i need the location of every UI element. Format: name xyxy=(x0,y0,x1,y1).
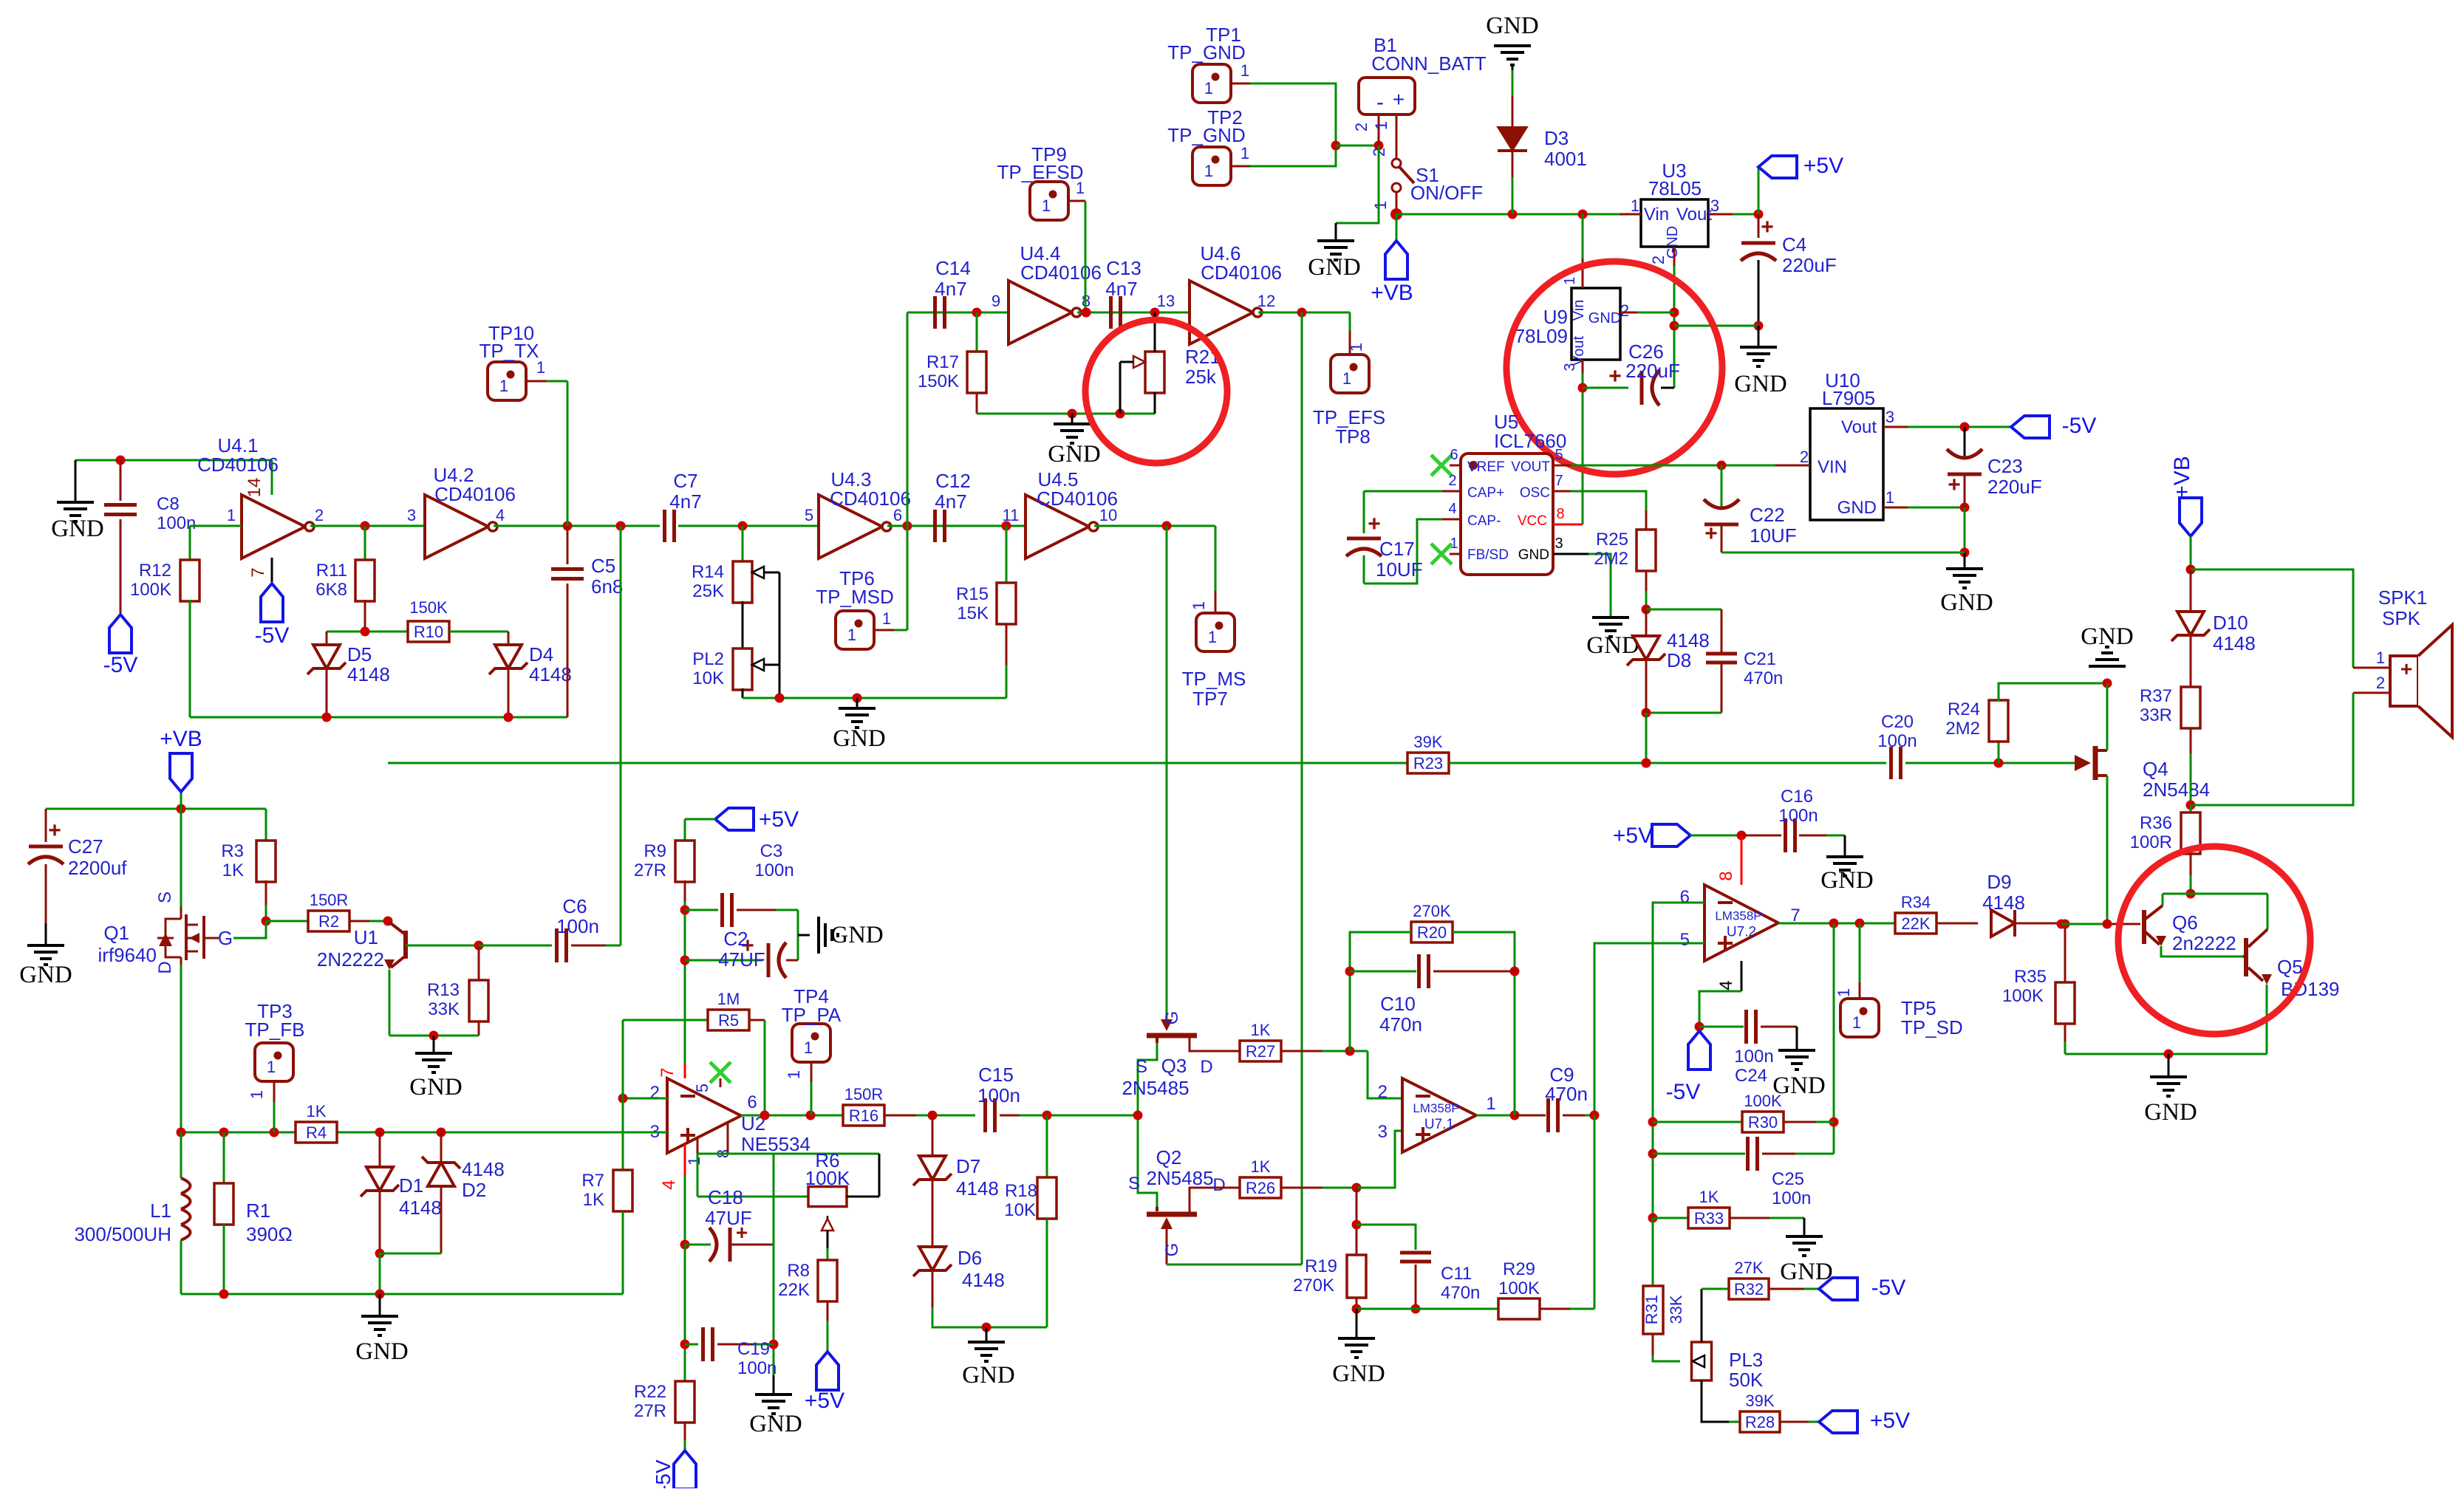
svg-text:2: 2 xyxy=(1800,448,1809,466)
svg-text:22K: 22K xyxy=(778,1280,810,1300)
svg-text:TP_MSD: TP_MSD xyxy=(816,586,893,608)
svg-text:D4: D4 xyxy=(529,643,553,665)
svg-text:SPK: SPK xyxy=(2382,607,2421,629)
svg-text:1: 1 xyxy=(1631,196,1639,215)
svg-text:100n: 100n xyxy=(754,860,794,880)
svg-text:470n: 470n xyxy=(1441,1283,1480,1303)
svg-text:G: G xyxy=(218,927,233,949)
svg-text:R1: R1 xyxy=(246,1200,270,1222)
svg-text:27R: 27R xyxy=(634,860,666,880)
svg-text:4: 4 xyxy=(1716,980,1736,990)
svg-text:GND: GND xyxy=(1665,226,1681,259)
svg-text:220uF: 220uF xyxy=(1625,360,1680,382)
svg-text:TP_GND: TP_GND xyxy=(1167,41,1245,64)
svg-text:1: 1 xyxy=(1208,628,1217,646)
svg-text:TP_PA: TP_PA xyxy=(782,1004,842,1026)
svg-text:100n: 100n xyxy=(737,1358,777,1378)
svg-text:R15: R15 xyxy=(956,584,989,604)
svg-text:GND: GND xyxy=(1486,13,1539,39)
svg-text:SPK1: SPK1 xyxy=(2378,586,2428,609)
svg-text:U7.2: U7.2 xyxy=(1727,925,1756,940)
svg-text:1K: 1K xyxy=(222,860,244,880)
svg-text:CAP-: CAP- xyxy=(1467,513,1501,529)
svg-text:10: 10 xyxy=(1099,506,1117,524)
svg-text:2: 2 xyxy=(2376,674,2385,692)
svg-text:4n7: 4n7 xyxy=(669,490,701,513)
svg-text:1: 1 xyxy=(2376,649,2385,667)
svg-text:150K: 150K xyxy=(918,372,959,391)
svg-text:GND: GND xyxy=(1308,254,1361,281)
svg-text:2: 2 xyxy=(650,1083,660,1103)
svg-text:1: 1 xyxy=(847,626,856,644)
svg-text:+5V: +5V xyxy=(805,1389,844,1413)
svg-text:10UF: 10UF xyxy=(1750,524,1797,547)
svg-text:1: 1 xyxy=(785,1070,803,1079)
svg-text:100R: 100R xyxy=(2130,832,2172,852)
svg-text:1: 1 xyxy=(1835,988,1853,997)
svg-text:1: 1 xyxy=(1885,488,1894,507)
svg-text:+: + xyxy=(1393,88,1405,111)
svg-text:C15: C15 xyxy=(978,1064,1014,1086)
svg-text:2N5485: 2N5485 xyxy=(1146,1167,1213,1189)
svg-text:1: 1 xyxy=(1450,535,1458,552)
svg-text:R20: R20 xyxy=(1417,923,1447,942)
svg-text:D: D xyxy=(1212,1175,1225,1195)
svg-text:R7: R7 xyxy=(581,1171,604,1191)
svg-text:GND: GND xyxy=(1332,1361,1385,1387)
svg-text:1: 1 xyxy=(1371,201,1390,210)
svg-text:GND: GND xyxy=(19,962,72,988)
svg-text:8: 8 xyxy=(1556,506,1564,522)
svg-text:G: G xyxy=(1162,1243,1182,1257)
svg-text:10K: 10K xyxy=(1004,1200,1036,1220)
svg-text:7: 7 xyxy=(658,1067,678,1077)
svg-text:GND: GND xyxy=(830,922,884,948)
svg-text:GND: GND xyxy=(409,1074,463,1101)
svg-text:1K: 1K xyxy=(1251,1021,1271,1039)
svg-text:R32: R32 xyxy=(1734,1280,1764,1298)
svg-text:1: 1 xyxy=(1042,196,1051,215)
svg-text:+: + xyxy=(1704,521,1718,546)
svg-text:1K: 1K xyxy=(1699,1188,1719,1206)
svg-text:LM358P: LM358P xyxy=(1715,909,1761,923)
svg-text:R29: R29 xyxy=(1503,1259,1535,1279)
svg-text:GND: GND xyxy=(1780,1259,1833,1285)
svg-text:CAP+: CAP+ xyxy=(1467,485,1504,501)
svg-text:4148: 4148 xyxy=(1667,629,1710,651)
svg-text:15K: 15K xyxy=(957,603,989,623)
svg-text:R4: R4 xyxy=(306,1123,327,1142)
svg-text:100n: 100n xyxy=(1772,1188,1811,1208)
svg-text:2M2: 2M2 xyxy=(1945,719,1980,739)
svg-text:+: + xyxy=(2400,657,2412,680)
svg-text:C7: C7 xyxy=(673,470,697,492)
svg-text:4148: 4148 xyxy=(1982,892,2025,914)
svg-text:27R: 27R xyxy=(634,1401,666,1421)
svg-text:1: 1 xyxy=(1240,61,1249,80)
svg-text:+: + xyxy=(1761,215,1774,239)
svg-text:R33: R33 xyxy=(1694,1209,1724,1228)
svg-text:7: 7 xyxy=(248,567,268,577)
svg-text:GND: GND xyxy=(2144,1099,2197,1126)
svg-text:7: 7 xyxy=(1554,473,1563,489)
svg-text:VIN: VIN xyxy=(1818,457,1847,477)
svg-text:Vout: Vout xyxy=(1571,336,1587,366)
svg-text:R16: R16 xyxy=(849,1106,878,1125)
svg-text:C16: C16 xyxy=(1781,787,1813,807)
svg-text:100n: 100n xyxy=(977,1084,1020,1106)
svg-text:R18: R18 xyxy=(1005,1181,1037,1201)
svg-text:C5: C5 xyxy=(591,555,615,577)
svg-text:TP_FB: TP_FB xyxy=(245,1019,305,1041)
svg-text:1: 1 xyxy=(882,609,891,628)
svg-text:S: S xyxy=(155,892,175,903)
svg-text:6: 6 xyxy=(893,506,902,524)
svg-text:5: 5 xyxy=(1554,447,1563,463)
svg-text:1K: 1K xyxy=(1251,1157,1271,1176)
svg-text:R27: R27 xyxy=(1246,1042,1275,1061)
svg-text:R24: R24 xyxy=(1948,699,1980,719)
svg-text:+VB: +VB xyxy=(160,727,202,751)
svg-text:GND: GND xyxy=(1734,371,1787,397)
svg-text:-: - xyxy=(1376,90,1384,114)
svg-text:C23: C23 xyxy=(1987,455,2023,477)
svg-text:150R: 150R xyxy=(310,891,349,909)
svg-text:3: 3 xyxy=(1710,196,1719,215)
svg-text:PL2: PL2 xyxy=(692,649,724,669)
svg-text:33K: 33K xyxy=(1667,1295,1685,1324)
svg-text:220uF: 220uF xyxy=(1782,254,1837,276)
svg-text:C18: C18 xyxy=(708,1186,743,1208)
svg-text:2N2222: 2N2222 xyxy=(317,948,384,971)
svg-text:+: + xyxy=(48,818,61,843)
svg-text:GND: GND xyxy=(1518,547,1549,563)
svg-text:CD40106: CD40106 xyxy=(1201,261,1282,284)
svg-text:GND: GND xyxy=(1837,498,1877,518)
svg-text:470n: 470n xyxy=(1545,1083,1588,1105)
svg-text:13: 13 xyxy=(1157,292,1175,310)
svg-text:C17: C17 xyxy=(1379,538,1415,560)
svg-text:47UF: 47UF xyxy=(718,948,765,971)
svg-text:TP_MS: TP_MS xyxy=(1182,668,1246,690)
svg-text:2: 2 xyxy=(1448,473,1456,489)
svg-text:-5V: -5V xyxy=(1666,1080,1701,1104)
svg-text:1: 1 xyxy=(1076,179,1085,197)
svg-text:CD40106: CD40106 xyxy=(434,483,516,505)
svg-text:LM358P: LM358P xyxy=(1413,1101,1459,1115)
svg-text:R28: R28 xyxy=(1745,1413,1775,1431)
svg-text:C6: C6 xyxy=(562,895,587,917)
svg-text:R37: R37 xyxy=(2140,686,2172,706)
svg-text:1: 1 xyxy=(267,1058,276,1076)
svg-text:GND: GND xyxy=(1048,441,1101,468)
svg-text:1: 1 xyxy=(248,1090,266,1099)
svg-text:100n: 100n xyxy=(1734,1047,1773,1067)
svg-text:L7905: L7905 xyxy=(1822,387,1875,409)
svg-text:39K: 39K xyxy=(1745,1392,1774,1410)
svg-text:270K: 270K xyxy=(1413,902,1451,920)
svg-text:C13: C13 xyxy=(1106,257,1141,279)
svg-text:+: + xyxy=(1608,364,1622,389)
svg-text:4001: 4001 xyxy=(1544,148,1587,170)
svg-text:D: D xyxy=(1200,1057,1212,1077)
svg-text:2N5484: 2N5484 xyxy=(2143,778,2210,801)
svg-text:10K: 10K xyxy=(692,668,724,688)
svg-text:irf9640: irf9640 xyxy=(98,944,157,966)
svg-text:D8: D8 xyxy=(1667,649,1691,671)
svg-text:3: 3 xyxy=(1378,1122,1388,1142)
svg-text:1: 1 xyxy=(1204,162,1213,180)
svg-text:1: 1 xyxy=(499,377,508,395)
svg-text:C20: C20 xyxy=(1881,712,1914,732)
svg-text:S: S xyxy=(1136,1057,1147,1077)
svg-text:47UF: 47UF xyxy=(705,1207,752,1229)
svg-text:U7.1: U7.1 xyxy=(1424,1117,1454,1132)
svg-text:+5V: +5V xyxy=(1803,154,1843,178)
svg-text:VREF: VREF xyxy=(1467,459,1505,475)
svg-text:2: 2 xyxy=(1649,256,1668,264)
svg-text:R17: R17 xyxy=(926,352,959,372)
svg-text:300/500UH: 300/500UH xyxy=(74,1223,171,1245)
svg-text:100K: 100K xyxy=(805,1167,850,1189)
svg-text:D5: D5 xyxy=(347,643,372,665)
svg-text:R35: R35 xyxy=(2014,967,2047,987)
svg-text:+: + xyxy=(1948,473,1961,497)
svg-text:S: S xyxy=(1128,1174,1140,1194)
svg-text:D: D xyxy=(155,961,175,973)
svg-text:R23: R23 xyxy=(1413,754,1443,773)
svg-text:R5: R5 xyxy=(718,1011,739,1030)
svg-text:GND: GND xyxy=(749,1411,802,1437)
svg-text:470n: 470n xyxy=(1744,668,1783,688)
svg-text:78L05: 78L05 xyxy=(1648,177,1702,199)
svg-text:150R: 150R xyxy=(844,1085,884,1103)
svg-text:100n: 100n xyxy=(1778,806,1818,826)
svg-text:-5V: -5V xyxy=(255,623,290,648)
svg-text:VCC: VCC xyxy=(1518,513,1547,529)
svg-text:1: 1 xyxy=(1342,369,1351,388)
svg-text:3: 3 xyxy=(1554,535,1563,552)
svg-text:4148: 4148 xyxy=(462,1158,505,1180)
svg-text:3: 3 xyxy=(407,506,416,524)
svg-text:D6: D6 xyxy=(958,1247,982,1269)
svg-text:270K: 270K xyxy=(1293,1276,1334,1296)
svg-text:Q3: Q3 xyxy=(1161,1055,1187,1077)
svg-text:TP_SD: TP_SD xyxy=(1901,1016,1963,1038)
svg-text:1K: 1K xyxy=(307,1102,327,1120)
svg-text:GND: GND xyxy=(833,725,886,752)
svg-text:6: 6 xyxy=(1450,447,1458,463)
svg-text:390Ω: 390Ω xyxy=(246,1223,293,1245)
svg-text:C14: C14 xyxy=(935,257,971,279)
svg-text:C25: C25 xyxy=(1772,1169,1804,1189)
svg-text:C8: C8 xyxy=(157,494,180,514)
svg-text:R34: R34 xyxy=(1901,893,1931,911)
svg-text:C3: C3 xyxy=(760,841,783,861)
svg-text:-5V: -5V xyxy=(652,1460,675,1488)
svg-text:R14: R14 xyxy=(692,562,724,582)
svg-text:1: 1 xyxy=(1852,1013,1861,1032)
svg-text:1: 1 xyxy=(1204,79,1213,97)
svg-text:C24: C24 xyxy=(1735,1066,1767,1086)
svg-text:+: + xyxy=(1368,512,1381,536)
svg-text:D10: D10 xyxy=(2213,612,2248,634)
svg-text:5: 5 xyxy=(1680,930,1690,950)
svg-text:C27: C27 xyxy=(68,835,103,858)
svg-text:78L09: 78L09 xyxy=(1515,325,1568,347)
svg-text:5: 5 xyxy=(693,1084,711,1092)
svg-text:TP_TX: TP_TX xyxy=(480,340,539,362)
svg-text:14: 14 xyxy=(245,478,265,498)
svg-text:4n7: 4n7 xyxy=(1105,278,1137,300)
svg-text:4148: 4148 xyxy=(399,1197,442,1219)
svg-text:100n: 100n xyxy=(556,915,599,937)
svg-text:R11: R11 xyxy=(316,561,347,581)
svg-text:GND: GND xyxy=(355,1338,409,1365)
svg-text:3: 3 xyxy=(1885,408,1894,426)
svg-text:+5V: +5V xyxy=(759,807,799,832)
svg-text:CONN_BATT: CONN_BATT xyxy=(1371,52,1487,75)
svg-text:NE5534: NE5534 xyxy=(741,1133,810,1155)
svg-text:R30: R30 xyxy=(1748,1113,1778,1132)
svg-text:25k: 25k xyxy=(1185,366,1217,388)
svg-text:C2: C2 xyxy=(723,928,748,950)
svg-text:G: G xyxy=(1162,1011,1182,1025)
svg-text:4: 4 xyxy=(496,506,505,524)
svg-text:5: 5 xyxy=(805,506,813,524)
svg-text:11: 11 xyxy=(1003,506,1020,524)
svg-text:2200uf: 2200uf xyxy=(68,857,127,879)
svg-text:1: 1 xyxy=(1240,144,1249,162)
svg-text:R12: R12 xyxy=(139,561,171,581)
svg-text:+VB: +VB xyxy=(1371,281,1413,305)
svg-text:4148: 4148 xyxy=(956,1177,999,1200)
svg-text:1M: 1M xyxy=(717,990,740,1008)
svg-text:+5V: +5V xyxy=(1613,824,1653,848)
svg-text:6n8: 6n8 xyxy=(591,575,623,598)
svg-text:12: 12 xyxy=(1257,292,1275,310)
svg-text:C4: C4 xyxy=(1782,233,1806,256)
svg-text:D7: D7 xyxy=(956,1155,980,1177)
svg-text:+5V: +5V xyxy=(1870,1409,1910,1433)
svg-text:R31: R31 xyxy=(1642,1295,1661,1324)
svg-text:D9: D9 xyxy=(1987,871,2011,893)
svg-text:-5V: -5V xyxy=(1871,1276,1906,1300)
svg-text:6: 6 xyxy=(747,1092,757,1112)
svg-text:Q6: Q6 xyxy=(2172,911,2198,934)
svg-text:100K: 100K xyxy=(1744,1092,1782,1110)
svg-text:FB/SD: FB/SD xyxy=(1467,547,1509,563)
svg-text:100n: 100n xyxy=(1877,731,1917,751)
svg-text:22K: 22K xyxy=(1901,914,1930,933)
svg-text:100K: 100K xyxy=(130,580,171,600)
svg-text:-5V: -5V xyxy=(2062,414,2097,438)
svg-text:TP8: TP8 xyxy=(1335,425,1371,448)
svg-text:CD40106: CD40106 xyxy=(197,454,279,476)
svg-text:C22: C22 xyxy=(1750,504,1785,526)
svg-text:R22: R22 xyxy=(634,1382,666,1402)
svg-text:1: 1 xyxy=(1347,343,1365,352)
svg-text:1: 1 xyxy=(1486,1094,1495,1114)
svg-text:150K: 150K xyxy=(409,598,448,617)
svg-text:R9: R9 xyxy=(644,841,666,861)
svg-text:D2: D2 xyxy=(462,1179,486,1201)
svg-text:-5V: -5V xyxy=(103,653,138,677)
svg-text:GND: GND xyxy=(51,516,104,542)
svg-text:2n2222: 2n2222 xyxy=(2172,932,2236,954)
svg-text:1K: 1K xyxy=(583,1190,604,1210)
svg-text:R8: R8 xyxy=(787,1261,810,1281)
svg-text:220uF: 220uF xyxy=(1987,476,2042,498)
svg-text:25K: 25K xyxy=(692,581,724,601)
svg-text:Q1: Q1 xyxy=(103,922,129,944)
svg-text:100K: 100K xyxy=(1498,1279,1540,1298)
svg-text:4148: 4148 xyxy=(347,663,390,685)
svg-text:3: 3 xyxy=(1562,363,1578,371)
svg-text:U1: U1 xyxy=(354,926,378,948)
svg-text:VOUT: VOUT xyxy=(1511,459,1550,475)
svg-text:2: 2 xyxy=(1378,1082,1388,1102)
svg-text:4n7: 4n7 xyxy=(935,490,966,513)
svg-text:Vout: Vout xyxy=(1841,417,1877,437)
svg-text:C21: C21 xyxy=(1744,649,1776,669)
svg-text:2: 2 xyxy=(315,506,324,524)
svg-text:R3: R3 xyxy=(221,841,244,861)
svg-text:R36: R36 xyxy=(2140,813,2172,833)
svg-text:GND: GND xyxy=(1940,589,1993,616)
svg-text:50K: 50K xyxy=(1729,1369,1764,1391)
svg-text:Vin: Vin xyxy=(1571,300,1587,321)
svg-text:C12: C12 xyxy=(935,470,971,492)
svg-text:TP_EFSD: TP_EFSD xyxy=(997,161,1083,183)
svg-text:PL3: PL3 xyxy=(1729,1349,1763,1371)
svg-text:L1: L1 xyxy=(150,1200,171,1222)
svg-text:Q5: Q5 xyxy=(2277,956,2303,978)
svg-text:4n7: 4n7 xyxy=(935,278,966,300)
svg-text:4148: 4148 xyxy=(962,1269,1005,1291)
svg-text:R19: R19 xyxy=(1305,1256,1337,1276)
svg-text:ON/OFF: ON/OFF xyxy=(1410,182,1483,204)
svg-text:33K: 33K xyxy=(428,999,460,1019)
svg-text:9: 9 xyxy=(992,292,1000,310)
svg-text:TP_GND: TP_GND xyxy=(1167,124,1245,146)
svg-text:Vout: Vout xyxy=(1676,205,1712,225)
svg-text:33R: 33R xyxy=(2140,705,2172,725)
svg-text:2M2: 2M2 xyxy=(1594,549,1628,569)
svg-text:1: 1 xyxy=(685,1157,703,1166)
svg-text:C19: C19 xyxy=(737,1339,770,1359)
svg-text:470n: 470n xyxy=(1379,1013,1422,1036)
svg-text:R25: R25 xyxy=(1596,530,1628,550)
svg-text:OSC: OSC xyxy=(1520,485,1550,501)
svg-text:D1: D1 xyxy=(399,1174,423,1197)
svg-text:10UF: 10UF xyxy=(1376,558,1423,581)
svg-text:1: 1 xyxy=(227,506,236,524)
svg-text:R10: R10 xyxy=(414,623,443,641)
svg-text:6K8: 6K8 xyxy=(315,580,347,600)
svg-text:+VB: +VB xyxy=(2170,456,2194,499)
svg-text:Vin: Vin xyxy=(1644,205,1669,225)
svg-text:C10: C10 xyxy=(1380,993,1416,1015)
svg-text:2: 2 xyxy=(1620,301,1629,320)
svg-text:1: 1 xyxy=(804,1038,813,1057)
svg-text:R26: R26 xyxy=(1246,1179,1275,1197)
svg-text:TP7: TP7 xyxy=(1192,688,1228,710)
svg-text:2: 2 xyxy=(1352,123,1371,131)
svg-text:1: 1 xyxy=(1190,601,1208,610)
svg-text:2N5485: 2N5485 xyxy=(1122,1077,1189,1099)
svg-text:R2: R2 xyxy=(318,912,339,931)
